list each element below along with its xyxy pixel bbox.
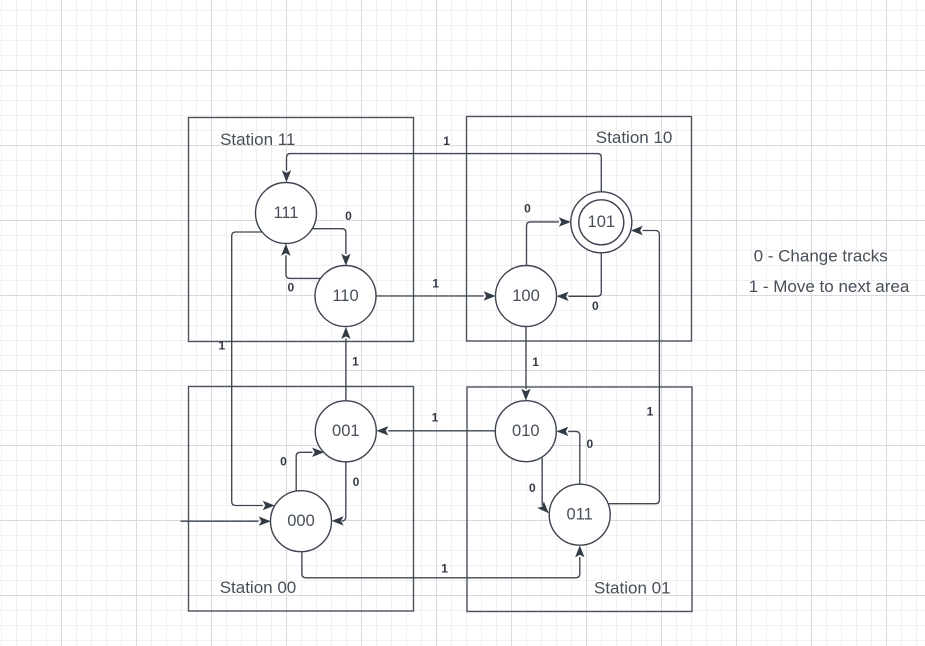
svg-text:110: 110 <box>332 287 358 305</box>
wire 111 to 110, label 0 <box>312 229 346 254</box>
svg-text:1 - Move to next area: 1 - Move to next area <box>749 277 910 296</box>
svg-text:1: 1 <box>218 339 225 353</box>
svg-text:1: 1 <box>532 355 539 369</box>
wire 010 to 001, label 1 <box>388 430 495 432</box>
svg-text:101: 101 <box>588 213 616 231</box>
wire initial-state arrow into 000 <box>181 520 259 522</box>
station box Station 10 <box>467 117 692 342</box>
state circle 001 <box>315 401 376 462</box>
svg-text:0: 0 <box>353 475 360 489</box>
svg-text:011: 011 <box>567 506 593 524</box>
wire 101 to 111 top loop, label 1 <box>287 154 602 192</box>
wire 011 to 101 right loop, label 1 <box>607 231 659 504</box>
svg-text:Station 00: Station 00 <box>220 578 297 597</box>
svg-text:1: 1 <box>441 562 448 576</box>
station box Station 00 <box>189 387 414 612</box>
svg-text:000: 000 <box>287 512 315 530</box>
state circle 101 <box>571 192 632 253</box>
wire 100 to 010, label 1 <box>525 327 527 390</box>
svg-text:0: 0 <box>586 437 593 451</box>
wire 110 to 100, label 1 <box>376 295 484 297</box>
svg-text:001: 001 <box>332 422 360 440</box>
station box Station 11 <box>189 118 414 342</box>
svg-text:1: 1 <box>432 277 439 291</box>
state circle 000 <box>271 491 332 552</box>
svg-text:0: 0 <box>345 209 352 223</box>
svg-text:1: 1 <box>432 411 439 425</box>
state circle 010 <box>495 401 556 462</box>
svg-text:1: 1 <box>647 405 654 419</box>
wire 001 to 000, label 0 <box>342 462 346 521</box>
wire 000 to 011 bottom loop, label 1 <box>302 552 580 578</box>
svg-text:Station 10: Station 10 <box>596 128 673 147</box>
svg-text:0: 0 <box>524 202 531 216</box>
state circle 100 <box>496 266 557 327</box>
svg-text:0: 0 <box>287 281 294 295</box>
wire 101 to 100, label 0 <box>569 253 602 296</box>
wire 010 to 011 diagonal, label 0 <box>541 458 543 506</box>
state circle 011 <box>549 484 610 545</box>
station box Station 01 <box>467 387 692 612</box>
svg-text:010: 010 <box>512 422 540 440</box>
state circle 111 <box>256 183 317 244</box>
wire 001 to 110, label 1 <box>345 339 347 401</box>
wire 011 to 010, label 0 <box>568 431 580 484</box>
wire 000 to 001, label 0 <box>296 452 312 491</box>
wire 110 to 111, label 0 <box>286 256 321 279</box>
svg-text:Station 11: Station 11 <box>220 130 295 149</box>
svg-text:0: 0 <box>592 299 599 313</box>
svg-text:0: 0 <box>529 481 536 495</box>
svg-text:1: 1 <box>352 355 359 369</box>
state circle 110 <box>315 266 376 327</box>
svg-text:100: 100 <box>512 287 540 305</box>
svg-text:111: 111 <box>273 204 298 222</box>
svg-text:0: 0 <box>280 455 287 469</box>
svg-text:0 - Change tracks: 0 - Change tracks <box>754 246 888 265</box>
svg-text:Station 01: Station 01 <box>594 579 671 598</box>
wire 111 to 000 left loop, label 1 <box>232 232 263 506</box>
svg-text:1: 1 <box>443 134 450 148</box>
wire 100 to 101, label 0 <box>527 222 559 266</box>
